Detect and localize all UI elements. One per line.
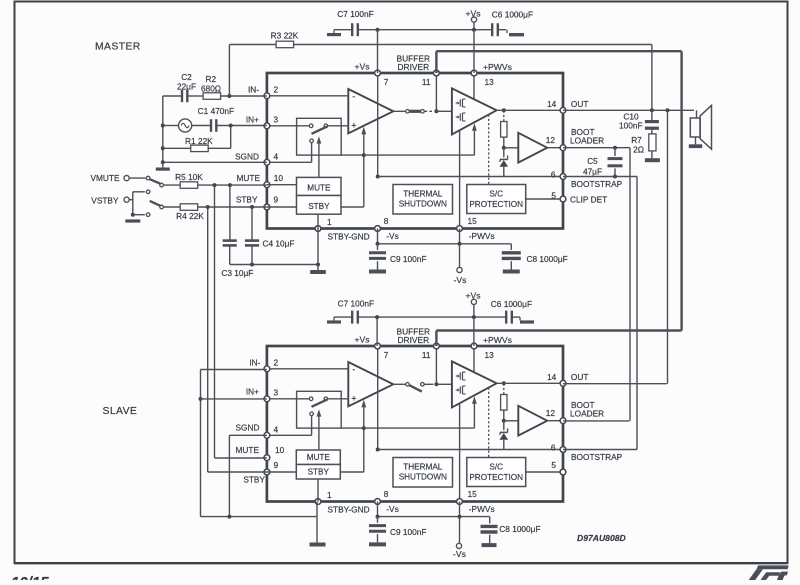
svg-text:+: +: [351, 393, 356, 403]
svg-text:STBY: STBY: [308, 202, 330, 211]
svg-text:-Vs: -Vs: [386, 231, 398, 241]
svg-text:THERMAL: THERMAL: [403, 189, 443, 198]
svg-text:R5 10K: R5 10K: [175, 172, 203, 182]
svg-text:R4 22K: R4 22K: [176, 211, 204, 221]
svg-text:MASTER: MASTER: [95, 42, 141, 53]
svg-text:2Ω: 2Ω: [633, 144, 644, 154]
svg-text:10: 10: [275, 445, 285, 455]
svg-text:14: 14: [547, 99, 557, 109]
svg-text:C3 10μF: C3 10μF: [221, 268, 253, 278]
svg-text:6: 6: [551, 170, 556, 180]
svg-text:SLAVE: SLAVE: [103, 406, 138, 417]
svg-text:PROTECTION: PROTECTION: [469, 200, 523, 209]
svg-text:MUTE: MUTE: [307, 184, 331, 193]
svg-text:13: 13: [485, 77, 495, 87]
svg-text:2: 2: [274, 357, 279, 367]
svg-text:SGND: SGND: [235, 151, 259, 161]
svg-text:C2: C2: [181, 72, 192, 82]
svg-text:15: 15: [468, 489, 478, 499]
svg-text:C5: C5: [587, 156, 598, 166]
svg-text:+Vs: +Vs: [465, 291, 480, 301]
svg-text:S/C: S/C: [489, 189, 503, 198]
svg-text:STBY: STBY: [243, 474, 265, 484]
svg-text:-PWVs: -PWVs: [469, 231, 495, 241]
svg-text:BOOTSTRAP: BOOTSTRAP: [571, 452, 623, 462]
svg-text:1: 1: [327, 490, 332, 500]
svg-text:11: 11: [422, 77, 431, 87]
svg-text:+Vs: +Vs: [354, 335, 369, 345]
svg-text:BOOTSTRAP: BOOTSTRAP: [571, 179, 623, 189]
svg-text:R2: R2: [205, 74, 216, 84]
svg-text:SHUTDOWN: SHUTDOWN: [399, 473, 447, 482]
svg-text:C7 100nF: C7 100nF: [338, 299, 374, 309]
svg-text:C1 470nF: C1 470nF: [198, 106, 234, 116]
svg-text:9: 9: [274, 460, 279, 470]
svg-text:47μF: 47μF: [583, 166, 602, 176]
svg-text:S/C: S/C: [489, 462, 503, 471]
svg-text:5: 5: [551, 190, 556, 200]
svg-text:IN+: IN+: [246, 387, 259, 397]
svg-text:IN-: IN-: [248, 84, 259, 94]
svg-text:10: 10: [274, 173, 284, 183]
svg-text:2: 2: [274, 84, 279, 94]
svg-text:-PWVs: -PWVs: [469, 504, 495, 514]
svg-text:13: 13: [485, 350, 495, 360]
svg-text:+Vs: +Vs: [354, 62, 369, 72]
svg-text:THERMAL: THERMAL: [403, 462, 443, 471]
svg-text:LOADER: LOADER: [570, 409, 604, 419]
svg-text:+PWVs: +PWVs: [483, 62, 512, 72]
svg-text:MUTE: MUTE: [236, 173, 260, 183]
svg-text:OUT: OUT: [571, 372, 589, 382]
svg-text:STBY-GND: STBY-GND: [328, 232, 370, 242]
svg-text:DRIVER: DRIVER: [397, 62, 429, 72]
svg-text:PROTECTION: PROTECTION: [469, 473, 523, 482]
svg-text:8: 8: [384, 216, 389, 226]
svg-text:-: -: [352, 91, 355, 101]
svg-text:8: 8: [384, 489, 389, 499]
svg-text:7: 7: [384, 77, 389, 87]
svg-text:C8 1000μF: C8 1000μF: [499, 524, 540, 534]
svg-text:C9 100nF: C9 100nF: [390, 254, 426, 264]
svg-text:C8 1000μF: C8 1000μF: [527, 254, 568, 264]
svg-text:-Vs: -Vs: [386, 504, 398, 514]
svg-text:+: +: [351, 120, 356, 130]
svg-text:DRIVER: DRIVER: [397, 335, 429, 345]
svg-text:VSTBY: VSTBY: [91, 195, 119, 205]
svg-text:680Ω: 680Ω: [201, 84, 221, 94]
svg-text:4: 4: [274, 424, 279, 434]
svg-text:4: 4: [274, 151, 279, 161]
svg-text:15: 15: [468, 216, 478, 226]
svg-text:MUTE: MUTE: [235, 445, 259, 455]
svg-text:SGND: SGND: [236, 423, 260, 433]
svg-text:VMUTE: VMUTE: [90, 173, 120, 183]
svg-text:C4 10μF: C4 10μF: [263, 239, 295, 249]
svg-text:3: 3: [274, 387, 279, 397]
svg-text:-: -: [352, 364, 355, 374]
svg-text:MUTE: MUTE: [307, 453, 331, 462]
svg-text:100nF: 100nF: [619, 120, 643, 130]
svg-text:IN-: IN-: [249, 358, 260, 368]
svg-text:D97AU808D: D97AU808D: [577, 533, 626, 543]
svg-text:+Vs: +Vs: [465, 8, 480, 18]
svg-text:3: 3: [274, 114, 279, 124]
svg-text:-Vs: -Vs: [454, 275, 467, 285]
svg-text:-Vs: -Vs: [453, 549, 466, 559]
svg-text:C6 1000μF: C6 1000μF: [492, 10, 533, 20]
svg-text:12: 12: [546, 135, 556, 145]
svg-text:+PWVs: +PWVs: [483, 335, 512, 345]
svg-text:C7 100nF: C7 100nF: [337, 9, 373, 19]
svg-text:5: 5: [551, 460, 556, 470]
svg-text:SHUTDOWN: SHUTDOWN: [399, 200, 447, 209]
svg-text:R3 22K: R3 22K: [271, 31, 299, 41]
svg-text:9: 9: [274, 195, 279, 205]
svg-text:STBY: STBY: [236, 195, 258, 205]
svg-text:11: 11: [422, 350, 431, 360]
svg-text:1: 1: [327, 217, 332, 227]
svg-text:IN+: IN+: [246, 114, 259, 124]
svg-text:7: 7: [384, 350, 389, 360]
svg-text:C6 1000μF: C6 1000μF: [491, 299, 532, 309]
svg-text:22μF: 22μF: [177, 82, 196, 92]
svg-text:CLIP DET: CLIP DET: [570, 194, 607, 204]
svg-text:STBY-GND: STBY-GND: [328, 505, 370, 515]
svg-text:C9 100nF: C9 100nF: [390, 527, 426, 537]
svg-text:OUT: OUT: [571, 99, 589, 109]
svg-text:STBY: STBY: [308, 468, 330, 477]
svg-text:14: 14: [547, 372, 557, 382]
svg-text:LOADER: LOADER: [570, 136, 604, 146]
svg-text:10/15: 10/15: [11, 574, 49, 580]
svg-text:6: 6: [551, 443, 556, 453]
svg-text:R1 22K: R1 22K: [185, 136, 213, 146]
svg-text:12: 12: [546, 408, 556, 418]
